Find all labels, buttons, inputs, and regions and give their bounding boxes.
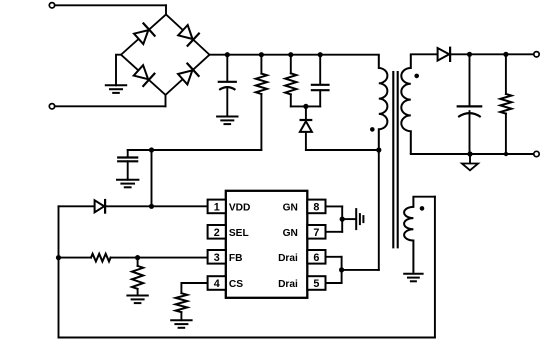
resistor R4 (FB lower divider) xyxy=(137,258,139,266)
pin 3 box xyxy=(208,250,226,264)
diode D5 (aux to VDD) xyxy=(95,200,105,212)
wire output bottom rail xyxy=(411,153,537,155)
transformer T1 auxiliary winding xyxy=(404,197,413,273)
ground (R4) xyxy=(127,295,147,297)
svg-text:VDD: VDD xyxy=(229,202,251,213)
wire pin 6 stub xyxy=(326,256,342,258)
resistor R5 (current sense) xyxy=(176,293,188,312)
node junction FB divider xyxy=(135,255,140,260)
wire pin 7 stub xyxy=(326,231,342,233)
op-amp U1 controller body xyxy=(226,191,307,298)
wire FB left segment xyxy=(59,257,92,259)
bridge diode D4 (bottom corner to + output) xyxy=(178,70,192,84)
output terminal J4 (-) xyxy=(534,151,539,156)
svg-text:1: 1 xyxy=(214,201,220,213)
ground (C2) xyxy=(117,179,138,181)
ground (R5) xyxy=(171,319,191,321)
wire left bus xyxy=(58,206,60,337)
ground (bridge negative) xyxy=(106,84,126,86)
node junction pins 6-5 (drain) xyxy=(339,267,344,272)
wire pins 6-5 join xyxy=(341,257,343,283)
primary phase dot xyxy=(370,127,375,132)
wire clamp to primary bottom xyxy=(306,149,379,151)
transformer T1 primary winding xyxy=(379,55,388,150)
wire top input rail xyxy=(55,4,166,6)
wire drain to primary xyxy=(342,269,379,271)
pin 4 box xyxy=(208,276,226,290)
node junction FB on left bus xyxy=(56,255,61,260)
svg-text:5: 5 xyxy=(313,278,319,290)
resistor R1 (startup, rail to VDD node) xyxy=(260,55,262,74)
bridge diode D3 (minus to bottom corner) xyxy=(134,65,148,79)
node junction cap line xyxy=(149,147,154,152)
svg-text:GN: GN xyxy=(283,202,298,213)
wire D5 to pin 1 xyxy=(106,205,208,207)
wire R5 to ground xyxy=(180,312,182,320)
capacitor C1 (bulk, polarized) xyxy=(226,55,228,82)
svg-text:FB: FB xyxy=(229,253,243,264)
input terminal J1 (AC line top) xyxy=(49,3,54,8)
input terminal J2 (AC line bottom) xyxy=(49,104,54,109)
aux phase dot xyxy=(420,206,425,211)
diode D7 (output rectifier) xyxy=(438,48,450,61)
svg-text:Drai: Drai xyxy=(278,253,298,264)
wire D7 to output terminal xyxy=(452,53,537,55)
pin 2 box xyxy=(208,225,226,239)
wire R1 bottom to VDD cap node xyxy=(152,149,262,151)
wire pin 5 stub xyxy=(326,282,342,284)
wire bottom input rail xyxy=(55,105,166,107)
ground (C1) xyxy=(217,116,237,118)
transformer core lines xyxy=(392,72,394,247)
ground (output, open triangle) xyxy=(469,154,471,163)
ground (aux winding) xyxy=(404,273,422,275)
wire aux top to right leg xyxy=(413,196,435,198)
svg-text:Drai: Drai xyxy=(278,279,298,290)
node junction at C4 top xyxy=(467,52,472,57)
wire right leg down xyxy=(434,197,436,338)
wire to C2 xyxy=(128,149,152,151)
wire pin 4 to R5 xyxy=(181,283,207,293)
node junction VDD xyxy=(149,204,154,209)
node junction on rail at R1 xyxy=(259,52,264,57)
pin 6 box xyxy=(307,250,325,264)
capacitor C4 (output, polarized) xyxy=(469,54,471,106)
resistor R2 (snubber) xyxy=(290,55,292,74)
secondary phase dot xyxy=(414,74,419,79)
svg-text:GN: GN xyxy=(283,228,298,239)
resistor R3 (FB series) xyxy=(91,254,111,262)
output terminal J3 (+) xyxy=(534,52,539,57)
svg-text:CS: CS xyxy=(229,279,243,290)
wire stub from bridge bottom corner xyxy=(165,95,167,106)
node junction pins 8-7 xyxy=(340,217,345,222)
wire main DC rail xyxy=(210,54,379,56)
wire bridge left corner to ground xyxy=(116,55,121,86)
node junction at C4 bottom xyxy=(467,151,472,156)
pin 5 box xyxy=(307,276,325,290)
svg-text:2: 2 xyxy=(214,227,220,239)
node snubber junction xyxy=(303,104,308,109)
node junction on rail at C3 xyxy=(318,52,323,57)
wire snubber bottom join xyxy=(291,105,320,107)
pin 8 box xyxy=(307,200,325,214)
resistor R6 (output load) xyxy=(505,54,507,94)
svg-text:SEL: SEL xyxy=(229,228,249,239)
wire bottom bus xyxy=(59,337,435,339)
diode D6 (clamp, points up) xyxy=(305,106,307,119)
svg-text:8: 8 xyxy=(313,201,319,213)
wire R3 to pin 3 xyxy=(111,257,208,259)
wire pins 8-7 join xyxy=(341,206,343,231)
node junction at R6 bottom xyxy=(504,152,508,156)
transformer T1 secondary winding xyxy=(401,54,411,154)
node junction on rail at C1 xyxy=(225,52,230,57)
wire stub to bridge top corner xyxy=(165,5,167,14)
svg-text:6: 6 xyxy=(313,252,319,264)
node junction at R6 top xyxy=(503,52,508,57)
capacitor C3 (snubber) xyxy=(319,55,321,85)
wire secondary top to D7 xyxy=(411,53,438,55)
bridge diode D1 (lower-left AC to top, points to top corner) xyxy=(134,30,148,44)
wire VDD line left segment xyxy=(59,205,95,207)
wire primary bottom down to drain xyxy=(378,150,380,270)
wire to signal ground xyxy=(342,218,355,220)
capacitor C2 (VDD bypass) xyxy=(127,150,129,157)
wire VDD node up to cap line xyxy=(151,150,153,206)
node junction primary bottom xyxy=(376,147,381,152)
pin 7 box xyxy=(307,225,325,239)
pin 1 box xyxy=(208,200,226,214)
svg-text:3: 3 xyxy=(214,252,220,264)
svg-text:7: 7 xyxy=(313,227,319,239)
node junction on rail at R2 xyxy=(288,52,293,57)
wire pin 8 stub xyxy=(326,205,342,207)
bridge diode D2 (top corner to + output) xyxy=(178,25,192,39)
ground (signal, sideways bars) xyxy=(355,209,357,229)
bridge diamond edges (wires) xyxy=(121,14,210,95)
svg-text:4: 4 xyxy=(214,278,220,290)
